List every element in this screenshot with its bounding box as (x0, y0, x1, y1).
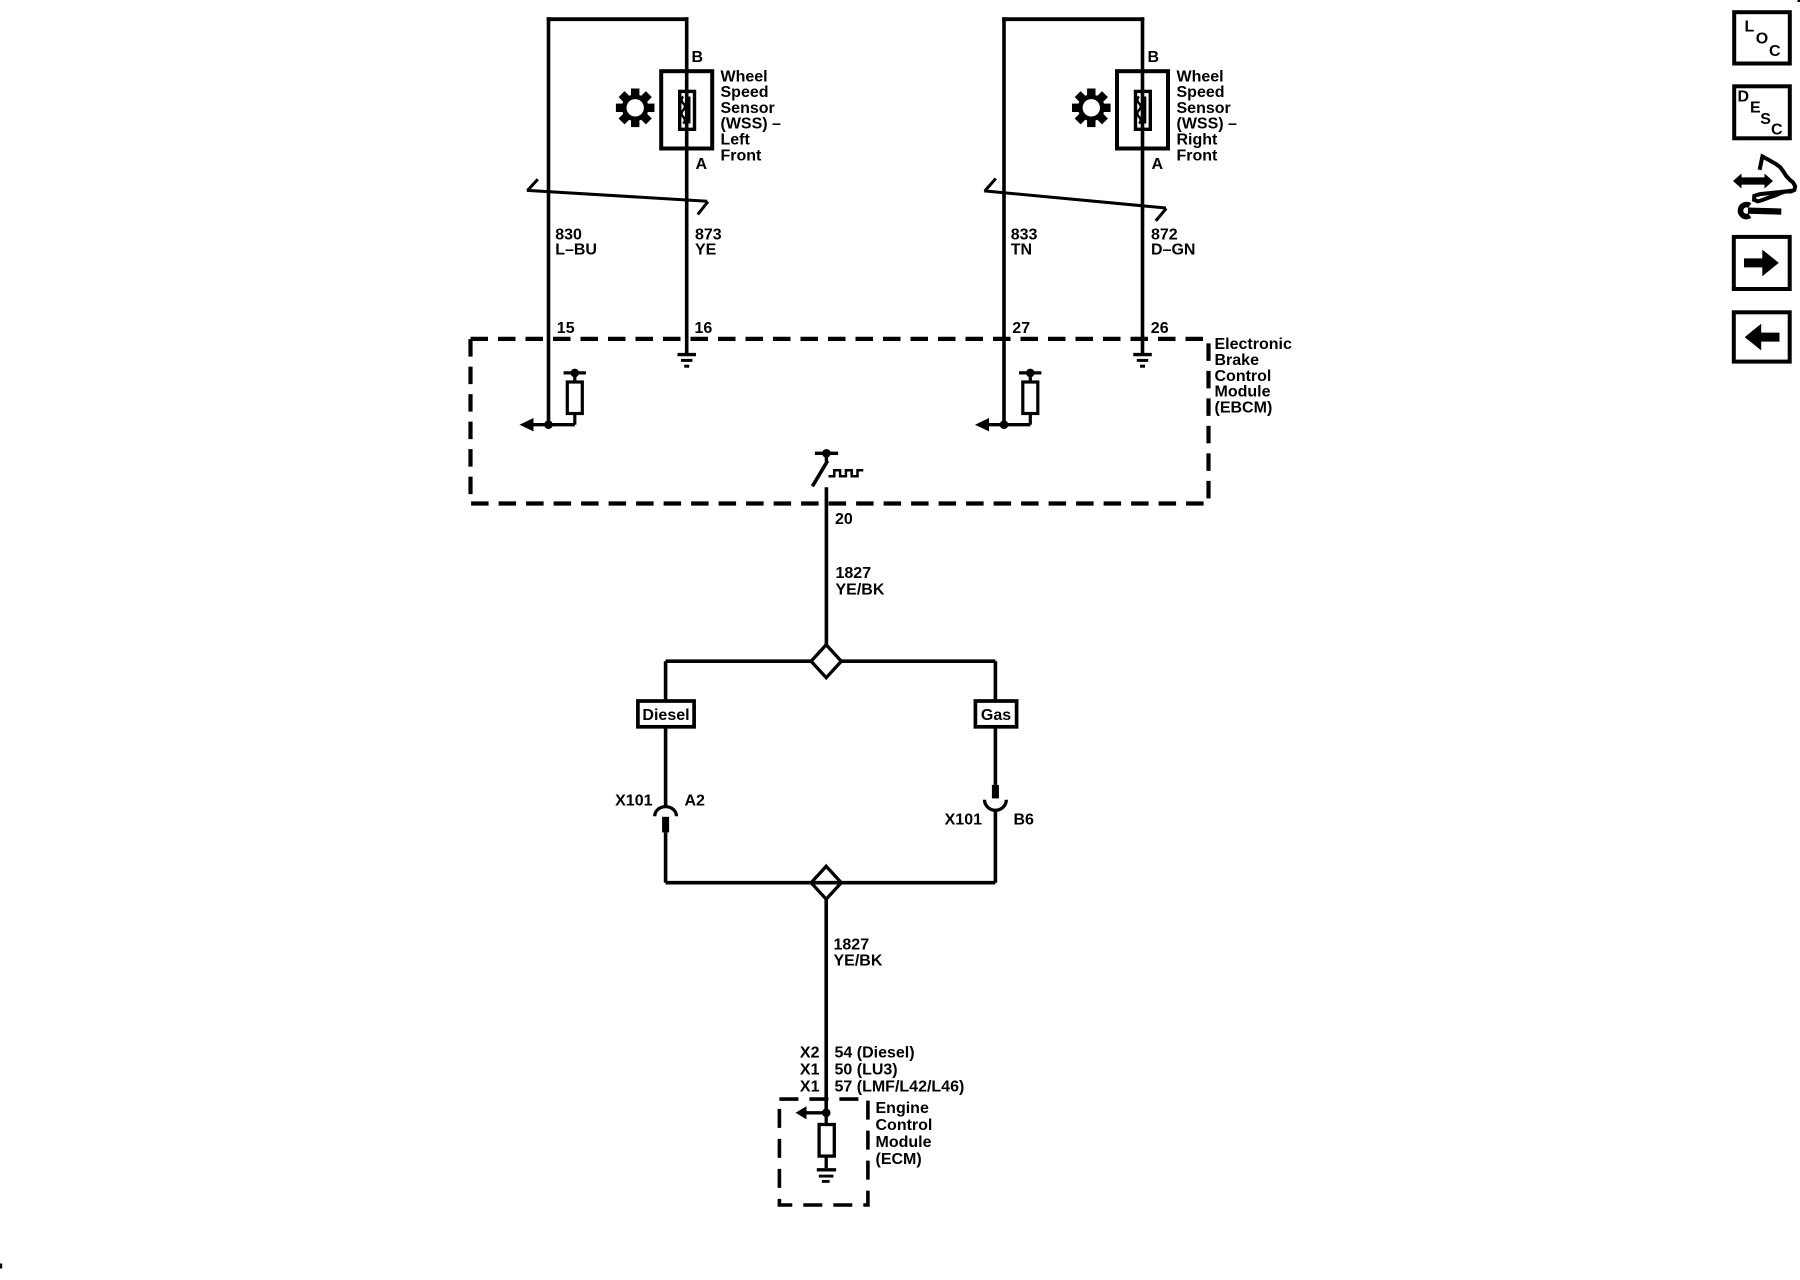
wheel speed sensor left box (661, 71, 712, 148)
wire gas branch upper (994, 661, 998, 700)
svg-text:50 (LU3): 50 (LU3) (835, 1061, 898, 1078)
voltage tap bar pin27 (1019, 371, 1041, 374)
svg-text:A: A (1152, 156, 1164, 173)
resistor stems pin15 (573, 374, 576, 382)
node junction dot pin27 (1000, 420, 1009, 429)
Gas box (975, 701, 1016, 727)
wire 1827 lower (824, 899, 828, 1113)
wire top rail left sensor (547, 17, 689, 21)
EBCM dashed box (471, 339, 1209, 504)
svg-text:C: C (1771, 122, 1783, 139)
splice diamond top (811, 645, 841, 678)
svg-text:X101: X101 (945, 812, 982, 829)
wire pin20 (825, 487, 829, 645)
wire below connector B6 (994, 810, 998, 882)
wire 872 D-GN lower (1141, 149, 1145, 338)
arrow to module pin27 (975, 418, 989, 431)
wire pin15 inside EBCM (547, 338, 551, 425)
splice diamond bottom (811, 866, 841, 899)
svg-text:O: O (1756, 31, 1768, 48)
corner mark top right (1798, 0, 1800, 2)
wire 830 L-BU vertical (547, 17, 551, 338)
svg-text:A: A (696, 156, 708, 173)
resistor pin27 (1023, 382, 1038, 414)
wire top rail right sensor (1002, 17, 1144, 21)
gear icon left (616, 89, 655, 128)
corner mark bottom left (0, 1264, 2, 1269)
branch top rail (666, 659, 812, 663)
svg-text:15: 15 (557, 320, 575, 337)
svg-text:B: B (1148, 49, 1160, 66)
svg-text:27: 27 (1012, 320, 1030, 337)
gear icon right (1072, 89, 1111, 128)
ground symbol ECM (817, 1168, 836, 1171)
sensor inner element box right (1136, 91, 1151, 129)
connector X101 B6 female arc (985, 800, 1007, 811)
wheel speed sensor right box (1117, 71, 1168, 148)
wire pin27 inside EBCM (1002, 338, 1006, 425)
wire 873 YE vertical upper (685, 17, 689, 70)
svg-text:D: D (1738, 89, 1750, 106)
svg-text:20: 20 (835, 511, 853, 528)
voltage tap bar pin15 (564, 371, 586, 374)
wire 872 D-GN vertical upper (1141, 17, 1145, 70)
svg-text:26: 26 (1151, 320, 1169, 337)
svg-text:X1: X1 (800, 1061, 820, 1078)
wire 833 TN vertical (1002, 17, 1006, 338)
svg-text:L: L (1745, 18, 1755, 35)
wire through sensor right (1141, 73, 1145, 148)
node junction dot ECM (822, 1109, 831, 1118)
svg-text:C: C (1769, 43, 1781, 60)
svg-text:B: B (692, 49, 704, 66)
svg-text:A2: A2 (685, 793, 706, 810)
PWM square wave glyph (829, 470, 864, 476)
wire gas branch middle (994, 728, 998, 785)
wire diesel branch lower (664, 728, 668, 807)
svg-text:S: S (1760, 111, 1771, 128)
svg-text:57 (LMF/L42/L46): 57 (LMF/L42/L46) (835, 1078, 965, 1095)
resistor ECM (819, 1125, 834, 1157)
arrow to module pin15 (520, 418, 534, 431)
bias network horizontal wire pin15 (531, 423, 575, 426)
svg-text:B6: B6 (1014, 812, 1035, 829)
svg-text:X101: X101 (615, 793, 652, 810)
svg-text:16: 16 (695, 320, 713, 337)
wire through sensor left (685, 73, 689, 148)
icon prev button (1734, 312, 1790, 361)
ECM dashed box (779, 1099, 868, 1205)
arrow to module ECM (805, 1111, 826, 1114)
svg-text:X2: X2 (800, 1045, 820, 1062)
svg-text:Diesel: Diesel (642, 707, 689, 724)
icon LOC button (1734, 12, 1790, 63)
icon next button (1734, 237, 1790, 289)
wire 873 YE lower (685, 149, 689, 338)
harness slash right pair (984, 191, 1166, 208)
svg-text:Gas: Gas (981, 707, 1011, 724)
connector X101 A2 male pin (662, 817, 669, 833)
node junction dot pin15 (544, 420, 553, 429)
Diesel box (638, 701, 694, 727)
connector X101 A2 female arc (655, 807, 677, 817)
sensor coil squiggle left (682, 97, 685, 124)
icon DESC button (1734, 86, 1790, 138)
sensor coil squiggle right (1137, 97, 1140, 124)
resistor stems pin27 (1029, 374, 1032, 382)
ground symbol pin26 (1141, 338, 1145, 353)
harness slash left pair (527, 190, 707, 201)
wire below connector A2 (664, 832, 668, 882)
resistor pin15 (567, 382, 582, 414)
sensor inner element box left (680, 91, 695, 129)
svg-text:54 (Diesel): 54 (Diesel) (835, 1045, 915, 1062)
ground symbol pin16 (685, 338, 689, 353)
svg-text:X1: X1 (800, 1078, 820, 1095)
icon compare: double arrow (1733, 174, 1773, 189)
icon compare: wrench (1740, 205, 1749, 217)
icon compare: loop outline (1754, 156, 1795, 201)
bias network horizontal wire pin27 (987, 423, 1031, 426)
branch bottom rail (666, 881, 996, 885)
connector X101 B6 male pin (992, 785, 999, 799)
switch symbol pin20 (815, 452, 838, 455)
wire diesel branch upper (664, 661, 668, 700)
